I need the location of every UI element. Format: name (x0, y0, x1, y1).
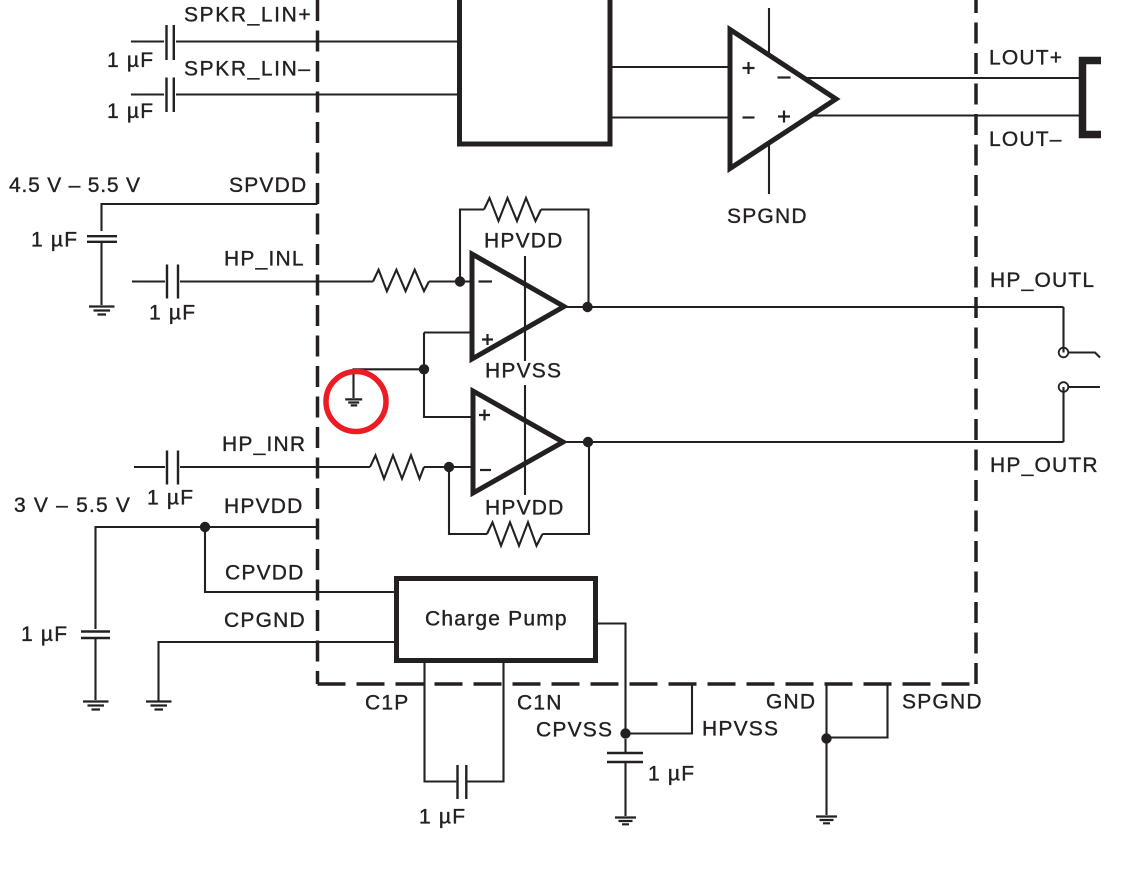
op-amp headphone left (472, 254, 564, 359)
wire from ring contact down to HP_OUTR (1062, 387, 1064, 442)
wire SPKR_LIN- into amp block (176, 93, 465, 95)
ground (GND/SPGND) (816, 817, 837, 824)
svg-text:1 µF: 1 µF (419, 806, 466, 829)
wire feedback right branch to output (541, 210, 589, 308)
wire resistor to inverting input (lower) (424, 466, 473, 468)
op-amp speaker amplifier (differential) (730, 30, 836, 169)
wire cap to ground (100, 243, 102, 305)
capacitor 1 µF (HPVDD decoupling) (81, 632, 110, 639)
junction dot (HP_OUTL) (582, 302, 592, 312)
wire SPGND pin down and over to GND (827, 684, 888, 738)
svg-text:HP_OUTR: HP_OUTR (990, 454, 1099, 477)
resistor (HP_INR feedback) (487, 522, 543, 545)
jack switch circle (tip) (1059, 348, 1069, 358)
wire HP_INL left stub (132, 280, 165, 282)
wire GND pin down (825, 684, 827, 739)
capacitor 1 µF (SPKR_LIN- coupling) (167, 78, 174, 113)
svg-text:CPGND: CPGND (224, 609, 306, 632)
wire C1P pin (425, 660, 457, 782)
wire HP_OUTL from op-amp output (564, 306, 1064, 308)
wire LOUT- output (806, 114, 1079, 116)
capacitor 1 µF (HP_INR coupling) (167, 451, 178, 485)
wire amp block to speaker amp - input (610, 116, 740, 118)
minus mark (speaker amp top-right) (778, 76, 791, 78)
capacitor 1 µF (CPVSS) (607, 753, 643, 762)
junction dot (HP_INL inverting) (455, 276, 465, 286)
capacitor 1 µF (HP_INL coupling) (167, 265, 178, 299)
wire HP_INL to input resistor (180, 280, 373, 282)
capacitor 1 µF (SPVDD decoupling) (87, 236, 117, 242)
op-amp headphone right (473, 391, 563, 493)
ground (HPVDD cap) (83, 702, 109, 710)
svg-text:HPVSS: HPVSS (485, 360, 562, 383)
minus mark (HP amp L) (479, 280, 493, 282)
ground (CPVSS cap) (615, 818, 636, 825)
power pin line (HPVSS-HPVDD lower) (524, 385, 526, 495)
junction dot (HPVDD rail) (200, 522, 210, 532)
resistor (HP_INL feedback) (484, 198, 541, 221)
svg-text:1 µF: 1 µF (107, 100, 154, 123)
svg-text:HPVSS: HPVSS (702, 718, 779, 741)
junction dot (GND node) (821, 733, 831, 743)
svg-text:1 µF: 1 µF (648, 763, 695, 786)
wire feedback right branch to output (lower) (543, 442, 590, 534)
svg-text:HP_INL: HP_INL (224, 248, 305, 271)
red annotation circle (326, 372, 386, 432)
capacitor 1 µF (SPKR_LIN+ coupling) (167, 25, 174, 60)
ground (CPGND) (146, 702, 172, 710)
svg-text:C1N: C1N (517, 692, 563, 715)
wire CPVSS to HPVSS pin (626, 684, 693, 734)
wire HP_INR to input resistor (180, 466, 370, 468)
svg-text:HPVDD: HPVDD (485, 497, 565, 520)
svg-text:CPVDD: CPVDD (225, 562, 305, 585)
svg-text:HPVDD: HPVDD (224, 495, 304, 518)
svg-text:CPVSS: CPVSS (536, 719, 613, 742)
charge pump block (397, 579, 596, 661)
capacitor 1 µF (flying cap C1P-C1N) (458, 765, 467, 799)
ground (headphone bias, inside red circle) (345, 399, 362, 405)
wire HPVDD rail (96, 527, 319, 629)
svg-text:SPKR_LIN–: SPKR_LIN– (184, 58, 312, 81)
svg-text:GND: GND (766, 691, 816, 714)
minus mark (speaker amp bottom-left) (743, 116, 755, 118)
svg-text:1 µF: 1 µF (149, 302, 196, 325)
svg-text:Charge Pump: Charge Pump (425, 608, 568, 631)
plus mark (HP amp L) (482, 334, 493, 345)
IC boundary dashed right (974, 0, 978, 684)
wire SPKR_LIN- left stub (131, 93, 164, 95)
wire non-inverting input stub (upper) (424, 331, 472, 333)
junction dot (CPVSS node) (620, 728, 630, 738)
junction dot (HP_INR inverting) (444, 462, 454, 472)
junction dot (bias bus) (419, 364, 429, 374)
IC boundary dashed left (316, 0, 320, 684)
minus mark (HP amp R) (480, 469, 491, 471)
junction dot (HP_OUTR) (583, 437, 593, 447)
wire LOUT+ output (800, 77, 1079, 79)
jack switch circle (ring) (1059, 382, 1069, 392)
svg-text:1 µF: 1 µF (31, 229, 78, 252)
plus mark (speaker amp bottom-right) (778, 111, 790, 123)
svg-text:C1P: C1P (365, 692, 409, 715)
svg-text:SPGND: SPGND (727, 205, 808, 228)
svg-text:1 µF: 1 µF (107, 49, 154, 72)
svg-text:1 µF: 1 µF (147, 487, 194, 510)
wire SPKR_LIN+ into amp block (176, 40, 465, 42)
power pin line (HPVDD-HPVSS upper) (524, 256, 526, 361)
svg-text:HP_INR: HP_INR (222, 433, 306, 456)
svg-text:LOUT–: LOUT– (989, 128, 1063, 151)
wire resistor to inverting input (429, 280, 472, 282)
svg-text:HPVDD: HPVDD (484, 230, 564, 253)
IC boundary dashed bottom (318, 682, 977, 686)
wire SPGND pin vertical through speaker amp (768, 8, 770, 194)
wire GND node to ground (825, 739, 827, 816)
jack lever (tip) (1069, 353, 1101, 358)
svg-text:1 µF: 1 µF (21, 623, 68, 646)
wire HP_OUTR from op-amp output (563, 441, 1064, 443)
svg-text:SPKR_LIN+: SPKR_LIN+ (184, 4, 312, 27)
resistor (HP_INR input) (370, 455, 424, 478)
resistor (HP_INL input) (373, 270, 429, 292)
amplifier block (top, partially cropped) (460, 0, 611, 144)
wire SPVDD rail (102, 204, 318, 231)
wire feedback left branch (HP_INL) (460, 210, 484, 282)
wire amp block to speaker amp + input (610, 66, 740, 68)
svg-text:SPGND: SPGND (902, 691, 983, 714)
svg-text:HP_OUTL: HP_OUTL (990, 269, 1095, 292)
wire charge pump output to CPVSS (595, 624, 626, 734)
wire CPVDD into charge pump (205, 527, 400, 592)
speaker terminal bracket (1083, 61, 1102, 135)
wire SPKR_LIN+ left stub (131, 40, 164, 42)
wire non-inverting bus vertical (424, 333, 473, 418)
wire into tip contact (1062, 307, 1064, 353)
wire CPVSS cap to ground (624, 739, 626, 816)
svg-text:3 V – 5.5 V: 3 V – 5.5 V (14, 494, 131, 517)
wire feedback left branch (HP_INR) (449, 467, 487, 534)
ground (SPVDD cap) (89, 307, 115, 315)
svg-text:SPVDD: SPVDD (229, 174, 307, 197)
svg-text:LOUT+: LOUT+ (989, 47, 1063, 70)
wire C1N pin (468, 660, 504, 782)
wire bus to ground (354, 369, 425, 398)
svg-text:4.5 V – 5.5 V: 4.5 V – 5.5 V (9, 174, 141, 197)
plus mark (HP amp R) (479, 410, 490, 421)
jack lever (ring) (1069, 386, 1101, 388)
wire HP_INR left stub (134, 466, 165, 468)
plus mark (speaker amp top-left) (743, 62, 755, 74)
wire CPGND into charge pump (159, 642, 401, 702)
wire cap to ground (HPVDD) (94, 639, 96, 700)
